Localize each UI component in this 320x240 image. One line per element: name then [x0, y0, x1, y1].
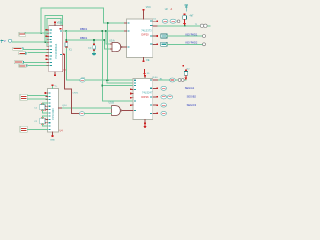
wire vertical Vd — [107, 23, 109, 80]
U1 left pin end marks — [46, 29, 48, 60]
node junction Vc top — [102, 30, 104, 32]
svg-text:1D: 1D — [147, 73, 150, 75]
wire vertical Vb to gate A in2 — [104, 40, 112, 49]
U4 left pin ticks — [46, 93, 48, 129]
oval rowD — [161, 103, 167, 107]
U4 right pin — [59, 107, 63, 109]
U2 pin name columns — [127, 21, 152, 48]
svg-text:74HC4060: 74HC4060 — [52, 108, 55, 120]
wire box E to U4 a — [27, 95, 47, 97]
wire C1 top — [42, 103, 47, 105]
svg-text:4k7: 4k7 — [190, 14, 195, 17]
wire below crystal — [66, 48, 80, 80]
svg-text:DIP20: DIP20 — [141, 32, 149, 36]
node junction oval line — [107, 79, 109, 81]
wire rowA — [158, 79, 186, 81]
U3 left pin ticks — [131, 89, 133, 105]
wire oval1 to U3 row — [85, 79, 133, 81]
U3 bottom pin — [144, 120, 146, 125]
oval rowB — [161, 86, 167, 90]
wire loop L2 — [45, 16, 63, 43]
U4 bottom pin — [51, 132, 53, 137]
gate U5B — [112, 106, 122, 116]
label box E — [20, 94, 27, 100]
svg-text:OE: OE — [146, 59, 150, 62]
wire vertical Va to gate A in1 — [106, 31, 112, 44]
IC U4 body — [48, 89, 59, 133]
wire loop L3 — [47, 18, 61, 46]
terminal pair rowA — [178, 79, 184, 82]
svg-text:CNT1: CNT1 — [73, 93, 79, 95]
resistor row3 — [161, 34, 167, 38]
U3 pin name columns — [134, 79, 152, 114]
label box RST — [19, 32, 26, 36]
IC U1 body — [49, 26, 63, 72]
terminal row4 — [203, 43, 206, 46]
wire row2 long — [158, 25, 210, 27]
fuse oval row1 a — [162, 19, 168, 23]
fuse oval rowA — [170, 78, 176, 82]
terminal row3 — [203, 35, 206, 38]
terminal row2 — [200, 24, 207, 27]
svg-text:DIP16: DIP16 — [141, 95, 149, 99]
wire vertical Vc to U3 — [102, 31, 133, 101]
svg-text:U5:B: U5:B — [109, 101, 115, 104]
label box C — [14, 61, 23, 64]
power arrow between U2 U3 — [143, 70, 146, 76]
ground below U3 — [143, 124, 146, 128]
terminal row1 — [177, 20, 180, 23]
wire H1 U1 to U2 — [63, 30, 125, 32]
svg-text:RB0/1: RB0/1 — [80, 36, 88, 40]
wire RST row — [25, 32, 49, 34]
svg-text:KEYPAD2: KEYPAD2 — [186, 41, 198, 45]
fuse oval row1 b — [170, 19, 176, 23]
IC U2 body — [127, 19, 153, 58]
U1 bottom pin — [54, 72, 56, 76]
oval rowC a — [161, 95, 167, 99]
svg-text:GND: GND — [50, 140, 55, 142]
wire H2 clock row — [66, 39, 104, 41]
oscillator oval 3 — [79, 112, 84, 116]
U2 top pin — [143, 9, 145, 19]
power flag above R1 — [185, 5, 188, 11]
svg-text:VDD: VDD — [57, 22, 62, 25]
oval at VCC row — [8, 39, 11, 42]
stray label right — [182, 65, 190, 71]
U2 left pin ticks — [125, 23, 127, 47]
svg-text:VCC: VCC — [146, 6, 151, 9]
svg-text:SEG/B2: SEG/B2 — [187, 95, 197, 99]
label box A — [13, 47, 23, 50]
wire C2 bottom — [42, 124, 47, 126]
wire VCC row — [13, 41, 49, 43]
U1 right border maroon — [62, 26, 64, 72]
wire box C to U1 — [24, 61, 49, 63]
IC U3 body — [133, 79, 153, 120]
svg-text:KEYPAD1: KEYPAD1 — [186, 32, 198, 36]
power flag VCC left — [1, 40, 3, 43]
wire gate A output — [122, 46, 126, 48]
U2 bottom pin — [143, 58, 145, 62]
oval rowE — [161, 111, 167, 115]
wire row y85.5 to U3 — [102, 85, 133, 87]
gate U5B input stubs — [110, 108, 112, 114]
wire row4 — [167, 43, 203, 45]
U4 left pin end marks — [45, 92, 47, 123]
capacitor C2 — [40, 117, 45, 125]
label box F — [20, 126, 27, 132]
gate U5A input stubs — [110, 44, 112, 49]
node junction Vb top — [104, 39, 106, 41]
U3 right pin stubs — [153, 80, 159, 113]
svg-text:SEG/C3: SEG/C3 — [187, 103, 197, 107]
node junction y80.2 x106.8 — [106, 79, 108, 81]
power +5V chain rowA — [184, 70, 188, 81]
node junction Va top — [105, 30, 107, 32]
gate U5A — [112, 42, 122, 51]
U1 right pin tick y53.8 — [63, 54, 64, 55]
power +5V chain top right — [183, 14, 187, 26]
oscillator oval 1 — [80, 78, 85, 82]
svg-text:PIC16F84A4: PIC16F84A4 — [54, 43, 58, 58]
U4 top pin — [51, 85, 53, 89]
crystal X1 — [65, 41, 68, 48]
oval rowC b — [167, 95, 172, 99]
node junction L2 VCC — [44, 41, 46, 43]
svg-text:74LS247: 74LS247 — [142, 91, 153, 95]
wire row y82.9 to U3 — [107, 80, 133, 83]
node junction H2 x69.3 — [66, 39, 68, 41]
wire box D to U1 — [29, 65, 49, 67]
svg-text:U5:A: U5:A — [109, 40, 115, 43]
node junction L1 RST — [40, 32, 42, 34]
wire C1 bottom — [42, 110, 47, 113]
U3 right pin end marks — [156, 88, 158, 115]
U1 top pin — [54, 22, 56, 26]
U2 right pin stubs — [153, 21, 158, 44]
wire gate B output — [122, 110, 133, 112]
wire box F to U4 — [27, 128, 47, 130]
U1 pin name column — [50, 28, 62, 66]
wire C2 top — [42, 116, 47, 118]
wire box E to U4 b — [27, 98, 47, 100]
svg-text:SEG/A1: SEG/A1 — [185, 86, 195, 90]
wire U4 to gate B in1 — [62, 107, 111, 109]
node junction Vd top — [107, 22, 109, 24]
wire box B to U1 — [28, 52, 49, 54]
U1 left pin ticks — [47, 30, 49, 66]
wire row3 — [167, 35, 203, 37]
svg-text:RB0/1: RB0/1 — [80, 27, 88, 31]
U3 top pin — [144, 75, 146, 79]
capacitor C1 — [40, 103, 45, 111]
capacitor C3 to ground — [93, 40, 96, 53]
wire box A to U1 — [23, 48, 49, 50]
wire oval3 to gate B in2 — [85, 113, 112, 115]
node junction row2 — [184, 25, 186, 27]
U4 pin name column — [48, 93, 50, 130]
wire loop L1 U2 pin1 — [41, 8, 124, 33]
wire U1 maroon signal — [63, 54, 80, 113]
label box D — [19, 64, 27, 67]
node junction H1 x69.3 — [66, 30, 68, 32]
U2 designator — [165, 8, 173, 11]
node junction x102.4 y85.5 — [102, 85, 104, 87]
label box B — [19, 52, 26, 55]
wire osc vertical — [65, 31, 67, 42]
U3 left pin end marks — [130, 89, 132, 106]
U2 right pin end marks — [156, 20, 158, 45]
svg-text:74LS373: 74LS373 — [141, 28, 152, 32]
resistor row4 — [161, 42, 167, 46]
ground below C3 — [92, 53, 96, 55]
node junction C3 top — [93, 39, 95, 41]
